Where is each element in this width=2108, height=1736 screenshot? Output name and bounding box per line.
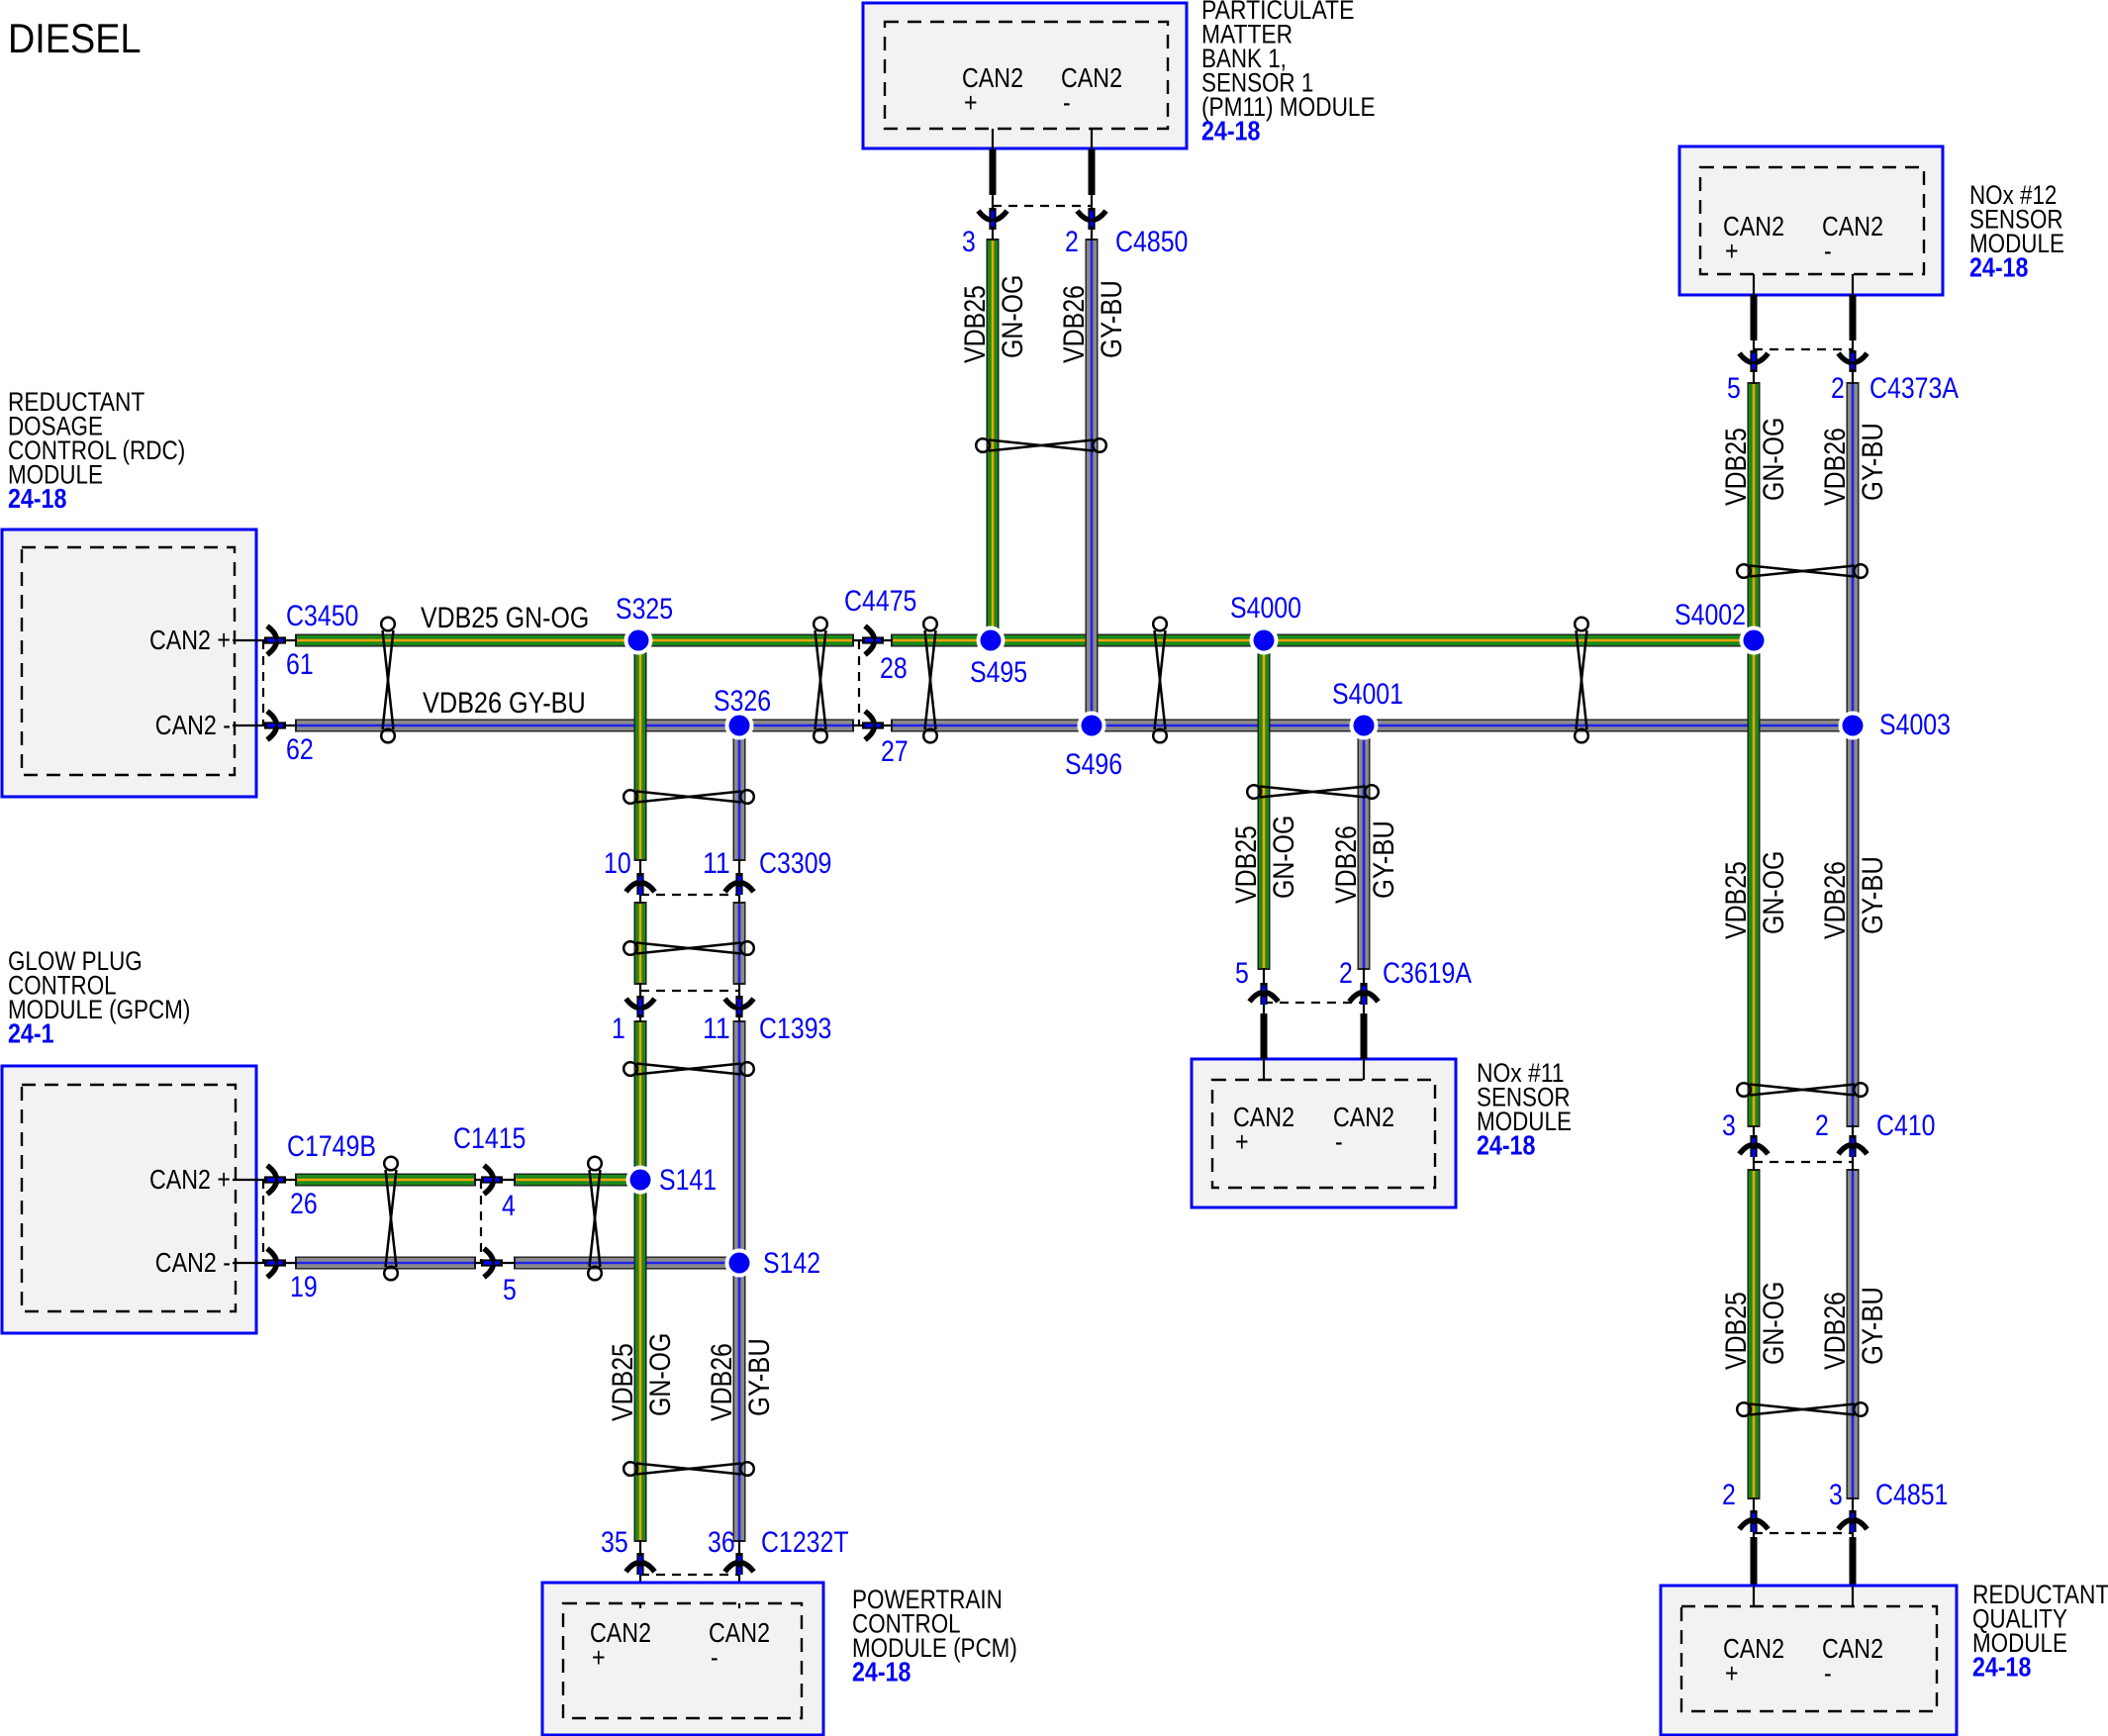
- svg-text:-: -: [711, 1642, 719, 1673]
- svg-text:C4851: C4851: [1875, 1479, 1948, 1511]
- wire VDB26 GY-BU right drop C410 to C4851: [1847, 1169, 1860, 1499]
- module RDC pin lead CAN2 -: [233, 724, 297, 726]
- splice S4001: [1350, 712, 1379, 740]
- svg-text:VDB26 GY-BU: VDB26 GY-BU: [423, 687, 586, 720]
- splice S495: [977, 627, 1006, 655]
- svg-text:2: 2: [1722, 1479, 1736, 1511]
- svg-text:36: 36: [708, 1526, 735, 1559]
- svg-text:C3450: C3450: [286, 600, 358, 632]
- svg-text:VDB25: VDB25: [1230, 825, 1263, 904]
- module NOx11 box: [1192, 1059, 1456, 1207]
- svg-text:VDB25: VDB25: [1720, 428, 1753, 506]
- svg-text:GY-BU: GY-BU: [1857, 423, 1889, 501]
- twisted pair symbol on bus left of C4475: [814, 618, 827, 743]
- svg-text:2: 2: [1339, 957, 1353, 990]
- module NOx12 pin line CAN2 +: [1753, 274, 1755, 295]
- module RQM box: [1661, 1586, 1957, 1735]
- module GPCM pin lead CAN2 +: [233, 1179, 297, 1181]
- twisted pair symbol on bus between S496 and S4000: [1153, 618, 1167, 743]
- wire VDB25 GN-OG GPCM segment (C1415 to S141): [514, 1174, 642, 1187]
- connector C1232T dashed bracket: [640, 1574, 739, 1576]
- connector C4850 chevron pin 2: [1078, 208, 1106, 230]
- svg-text:+: +: [1725, 1658, 1739, 1688]
- connector C3619A chevron pin 5: [1250, 983, 1279, 1005]
- svg-text:2: 2: [1831, 372, 1845, 405]
- module RDC box: [2, 530, 256, 797]
- svg-text:DIESEL: DIESEL: [8, 15, 142, 61]
- svg-text:GN-OG: GN-OG: [1758, 851, 1790, 934]
- connector C4850 lead pin 2: [1089, 149, 1096, 195]
- svg-text:24-1: 24-1: [8, 1018, 54, 1049]
- wire VDB26 GY-BU bus right segment (C4475 to S4003): [891, 720, 1855, 732]
- svg-text:3: 3: [1722, 1109, 1736, 1142]
- svg-text:GN-OG: GN-OG: [644, 1333, 677, 1416]
- connector C3450 chevron pin 61: [264, 627, 286, 655]
- svg-text:VDB26: VDB26: [1819, 428, 1852, 506]
- svg-text:+: +: [592, 1642, 606, 1673]
- connector C410 thin line VDB25: [1753, 1125, 1755, 1171]
- svg-text:2: 2: [1065, 226, 1079, 258]
- connector C4475 chevron pin 28: [862, 627, 884, 655]
- svg-text:C3309: C3309: [759, 847, 831, 880]
- svg-text:GY-BU: GY-BU: [1368, 820, 1400, 899]
- connector C1415 chevron pin 4: [481, 1166, 503, 1195]
- twisted pair symbol on bus right of C4475: [923, 618, 937, 743]
- svg-text:+: +: [1725, 236, 1739, 266]
- wire VDB25 GN-OG left drop C1393 to PCM pin 35: [634, 1020, 647, 1542]
- svg-text:GN-OG: GN-OG: [1268, 816, 1300, 899]
- module PCM pin line CAN2 -: [738, 1603, 740, 1608]
- svg-text:3: 3: [1829, 1479, 1843, 1511]
- module RDC pin lead CAN2 +: [233, 639, 297, 641]
- svg-text:+: +: [964, 87, 978, 118]
- connector C3450 dashed bracket: [262, 640, 264, 725]
- svg-text:VDB26: VDB26: [1058, 285, 1091, 363]
- connector C3619A dashed bracket: [1264, 1002, 1364, 1004]
- wire VDB25 GN-OG bus left segment (C3450 to C4475): [295, 634, 854, 647]
- svg-text:+: +: [1235, 1126, 1249, 1157]
- svg-text:CAN2 +: CAN2 +: [149, 1164, 231, 1195]
- svg-text:CAN2 +: CAN2 +: [149, 625, 231, 655]
- twisted pair symbol on left drop between C3309 and C1393: [623, 941, 754, 955]
- module PCM pin line CAN2 +: [639, 1603, 641, 1608]
- connector C4850 chevron pin 3: [979, 208, 1007, 230]
- connector C1749B chevron pin 26: [264, 1166, 286, 1195]
- splice S4000: [1250, 627, 1279, 655]
- connector C1393 chevron pin 11: [725, 996, 754, 1017]
- wire VDB25 GN-OG right drop C410 to C4851: [1748, 1169, 1761, 1499]
- wire VDB25 GN-OG right drop NOx12 to C410: [1748, 382, 1761, 1127]
- connector C3309 thin line VDB26: [738, 859, 740, 904]
- wire VDB25 GN-OG GPCM segment (C1749B to C1415): [295, 1174, 476, 1187]
- wire VDB25 GN-OG bus right segment (C4475 to S4002): [891, 634, 1756, 647]
- twisted pair symbol on bus between S4001 and S4002: [1575, 618, 1588, 743]
- wire VDB26 GY-BU left drop C3309 to C1393: [733, 902, 746, 985]
- connector C3619A lead pin 2: [1361, 1013, 1368, 1059]
- svg-text:C4850: C4850: [1115, 226, 1188, 258]
- svg-text:2: 2: [1815, 1109, 1829, 1142]
- svg-text:VDB25: VDB25: [1720, 861, 1753, 939]
- twisted pair symbol on right drop above C410: [1737, 1083, 1868, 1097]
- connector C3619A lead pin 5: [1261, 1013, 1268, 1059]
- svg-text:GY-BU: GY-BU: [743, 1338, 776, 1416]
- wire VDB26 GY-BU left drop C1393 to PCM pin 36: [733, 1020, 746, 1542]
- svg-text:GN-OG: GN-OG: [997, 275, 1029, 358]
- connector C1415 dashed bracket: [480, 1180, 482, 1263]
- connector C4475 thin line VDB25: [852, 639, 893, 641]
- svg-text:VDB25: VDB25: [607, 1343, 639, 1421]
- svg-text:4: 4: [502, 1190, 516, 1222]
- svg-text:11: 11: [703, 847, 730, 880]
- connector C3619A chevron pin 2: [1350, 983, 1379, 1005]
- splice S142: [725, 1249, 754, 1278]
- twisted pair symbol on right drop above C4851: [1737, 1402, 1868, 1416]
- svg-text:27: 27: [881, 735, 909, 768]
- svg-text:-: -: [1824, 236, 1832, 266]
- svg-text:S326: S326: [714, 685, 771, 718]
- connector C1415 thin line CAN2 -: [474, 1262, 516, 1264]
- svg-text:C3619A: C3619A: [1383, 957, 1472, 990]
- svg-text:VDB26: VDB26: [1819, 1292, 1852, 1370]
- wire VDB26 GY-BU right drop NOx12 to C410: [1847, 382, 1860, 1127]
- svg-text:CAN2 -: CAN2 -: [155, 710, 231, 740]
- twisted pair symbol on left drop below C1393: [623, 1062, 754, 1076]
- svg-text:62: 62: [286, 733, 314, 766]
- module RQM lead CAN2 -: [1850, 1537, 1857, 1586]
- svg-text:VDB26: VDB26: [1819, 861, 1852, 939]
- svg-text:35: 35: [601, 1526, 628, 1559]
- wire VDB26 GY-BU drop S4001 to NOx11 module: [1358, 723, 1371, 970]
- svg-text:5: 5: [503, 1274, 517, 1306]
- svg-text:24-18: 24-18: [1477, 1130, 1535, 1161]
- svg-text:GN-OG: GN-OG: [1758, 1282, 1790, 1365]
- twisted pair symbol on left drop above C3309: [623, 790, 754, 804]
- connector C1415 thin line CAN2 +: [474, 1179, 516, 1181]
- wire VDB25 GN-OG drop S4000 to NOx11 module: [1258, 638, 1271, 970]
- connector C4851 chevron pin 2: [1740, 1510, 1769, 1532]
- svg-text:GY-BU: GY-BU: [1857, 856, 1889, 934]
- connector C4373A lead pin 5: [1751, 295, 1758, 340]
- wire VDB26 GY-BU drop from PM11 module to S496: [1086, 239, 1099, 727]
- svg-text:C1415: C1415: [453, 1122, 526, 1155]
- svg-text:GN-OG: GN-OG: [1758, 418, 1790, 501]
- splice S496: [1078, 712, 1106, 740]
- svg-text:GY-BU: GY-BU: [1857, 1287, 1889, 1365]
- connector C3309 chevron pin 10: [626, 873, 655, 895]
- module RQM pin line CAN2 +: [1753, 1586, 1755, 1606]
- svg-text:24-18: 24-18: [8, 483, 66, 514]
- svg-text:VDB25 GN-OG: VDB25 GN-OG: [421, 602, 589, 634]
- svg-text:VDB26: VDB26: [1330, 825, 1363, 904]
- connector C4475 thin line VDB26: [852, 724, 893, 726]
- module NOx11 pin line CAN2 -: [1363, 1059, 1365, 1080]
- connector C4851 thin line VDB26: [1852, 1497, 1854, 1537]
- connector C1393 thin line VDB26: [738, 983, 740, 1022]
- svg-text:3: 3: [962, 226, 976, 258]
- svg-text:VDB26: VDB26: [706, 1343, 738, 1421]
- svg-text:-: -: [1824, 1658, 1832, 1688]
- connector C1393 chevron pin 1: [626, 996, 655, 1017]
- connector C1393 thin line VDB25: [639, 983, 641, 1022]
- svg-text:GY-BU: GY-BU: [1096, 280, 1128, 358]
- connector C4475 dashed bracket: [858, 640, 860, 725]
- connector C4373A chevron pin 5: [1740, 350, 1769, 372]
- splice S141: [626, 1166, 655, 1195]
- connector C4850 dashed bracket: [993, 205, 1092, 207]
- svg-text:S4000: S4000: [1230, 592, 1301, 625]
- twisted pair symbol on GPCM pair after C1749B: [384, 1157, 398, 1281]
- svg-text:-: -: [1335, 1126, 1343, 1157]
- wire VDB25 GN-OG drop from PM11 module to S495: [987, 239, 1000, 642]
- wire VDB26 GY-BU GPCM segment (C1415 to S142): [514, 1257, 741, 1270]
- module PM11 pin line CAN2 -: [1091, 129, 1093, 149]
- connector C4373A dashed bracket: [1754, 348, 1853, 350]
- connector C4373A chevron pin 2: [1839, 350, 1868, 372]
- svg-text:S4001: S4001: [1332, 678, 1403, 711]
- svg-text:S496: S496: [1065, 748, 1122, 781]
- splice S326: [725, 712, 754, 740]
- twisted pair symbol on GPCM pair after C1415: [588, 1157, 602, 1281]
- connector C1232T chevron pin 36: [725, 1553, 754, 1575]
- svg-text:C410: C410: [1876, 1109, 1936, 1142]
- connector C4373A lead pin 2: [1850, 295, 1857, 340]
- connector C410 chevron pin 2: [1839, 1135, 1868, 1157]
- module NOx11 pin line CAN2 +: [1263, 1059, 1265, 1080]
- wire VDB26 GY-BU left drop S326 to C3309: [733, 723, 746, 861]
- twisted pair symbol on left drop above C1232T: [623, 1462, 754, 1476]
- module GPCM pin lead CAN2 -: [233, 1262, 297, 1264]
- twisted pair symbol on bus after C3450: [381, 618, 395, 743]
- svg-text:28: 28: [880, 652, 908, 685]
- module GPCM box: [2, 1066, 256, 1333]
- svg-text:S4002: S4002: [1675, 599, 1746, 631]
- svg-text:S495: S495: [970, 656, 1027, 689]
- connector C4851 dashed bracket: [1754, 1532, 1853, 1534]
- svg-text:C1393: C1393: [759, 1013, 831, 1045]
- svg-text:S141: S141: [659, 1164, 717, 1197]
- svg-text:C1232T: C1232T: [761, 1526, 849, 1559]
- svg-text:S142: S142: [763, 1247, 820, 1280]
- twisted pair symbol on PM11 drop pair: [976, 438, 1106, 452]
- connector C1749B dashed bracket: [262, 1180, 264, 1263]
- svg-text:VDB25: VDB25: [959, 285, 992, 363]
- connector C1749B chevron pin 19: [264, 1249, 286, 1278]
- connector C4851 thin line VDB25: [1753, 1497, 1755, 1537]
- svg-text:S325: S325: [616, 593, 673, 626]
- svg-text:24-18: 24-18: [1201, 116, 1260, 146]
- svg-text:24-18: 24-18: [1972, 1652, 2031, 1683]
- twisted pair symbol on NOx12 drop above S4002: [1737, 564, 1868, 578]
- svg-text:CAN2 -: CAN2 -: [155, 1247, 231, 1278]
- svg-text:VDB25: VDB25: [1720, 1292, 1753, 1370]
- splice S4003: [1839, 712, 1868, 740]
- svg-text:19: 19: [290, 1271, 318, 1303]
- connector C3309 chevron pin 11: [725, 873, 754, 895]
- wire VDB26 GY-BU bus left segment (C3450 to C4475): [295, 720, 854, 732]
- connector C1393 dashed bracket: [640, 990, 739, 992]
- module PM11 box: [863, 3, 1187, 148]
- splice S325: [624, 627, 653, 655]
- svg-text:11: 11: [703, 1013, 730, 1045]
- connector C4851 chevron pin 3: [1839, 1510, 1868, 1532]
- wire VDB25 GN-OG left drop S325 to C3309: [634, 638, 647, 861]
- module RQM pin line CAN2 -: [1852, 1586, 1854, 1606]
- splice S4002: [1740, 627, 1769, 655]
- module PCM box: [542, 1583, 823, 1735]
- connector C1232T thin line VDB25: [639, 1540, 641, 1603]
- connector C1232T thin line VDB26: [738, 1540, 740, 1603]
- connector C4850 lead pin 3: [990, 149, 997, 195]
- module NOx12 box: [1679, 146, 1943, 295]
- svg-text:1: 1: [612, 1013, 625, 1045]
- connector C3450 chevron pin 62: [264, 712, 286, 740]
- connector C1232T chevron pin 35: [626, 1553, 655, 1575]
- svg-text:5: 5: [1235, 957, 1249, 990]
- svg-text:61: 61: [286, 648, 314, 681]
- module NOx12 pin line CAN2 -: [1852, 274, 1854, 295]
- module PM11 pin line CAN2 +: [992, 129, 994, 149]
- svg-text:24-18: 24-18: [852, 1657, 910, 1688]
- svg-text:5: 5: [1727, 372, 1741, 405]
- svg-text:C4373A: C4373A: [1869, 372, 1959, 405]
- connector C4475 chevron pin 27: [862, 712, 884, 740]
- svg-text:24-18: 24-18: [1969, 252, 2028, 283]
- connector C410 thin line VDB26: [1852, 1125, 1854, 1171]
- svg-text:S4003: S4003: [1879, 709, 1951, 741]
- svg-text:C4475: C4475: [844, 585, 916, 618]
- svg-text:-: -: [1063, 87, 1071, 118]
- connector C410 chevron pin 3: [1740, 1135, 1769, 1157]
- module RQM lead CAN2 +: [1751, 1537, 1758, 1586]
- connector C410 dashed bracket: [1754, 1161, 1853, 1163]
- connector C3309 dashed bracket: [640, 894, 739, 896]
- svg-text:26: 26: [290, 1188, 318, 1220]
- connector C1415 chevron pin 5: [481, 1249, 503, 1278]
- wire VDB25 GN-OG left drop C3309 to C1393: [634, 902, 647, 985]
- svg-text:10: 10: [604, 847, 631, 880]
- connector C3309 thin line VDB25: [639, 859, 641, 904]
- wire VDB26 GY-BU GPCM segment (C1749B to C1415): [295, 1257, 476, 1270]
- twisted pair symbol on NOx11 drop pair: [1247, 785, 1379, 799]
- svg-text:C1749B: C1749B: [287, 1130, 376, 1163]
